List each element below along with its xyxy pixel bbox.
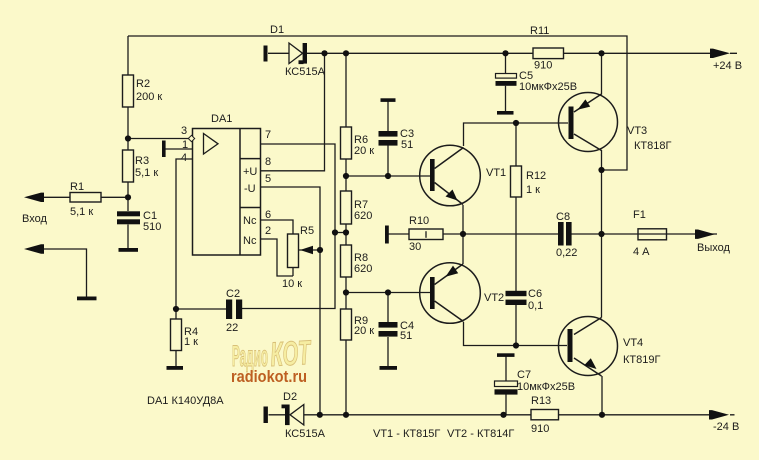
svg-text:3: 3 bbox=[181, 125, 187, 137]
resistor R2 bbox=[123, 75, 134, 107]
resistor R6 bbox=[341, 127, 352, 159]
wire VT4 emitter down to -24V rail bbox=[601, 376, 603, 415]
svg-text:30: 30 bbox=[409, 241, 421, 253]
capacitor C2 bbox=[226, 300, 242, 320]
wire C7 leads bbox=[505, 357, 507, 415]
resistor R1 bbox=[70, 193, 101, 203]
capacitor C7 (polarized) bbox=[495, 353, 518, 394]
wire op-amp pin 8 riser to +24V rail bbox=[261, 53, 325, 171]
wire VT2 base line bbox=[346, 292, 430, 294]
wire VT2 emitter up to output node bbox=[462, 234, 464, 264]
resistor R7 bbox=[341, 191, 352, 224]
op-amp DA1 box bbox=[193, 129, 261, 256]
wire R12 leads through to C6 bbox=[515, 123, 517, 346]
svg-text:R12: R12 bbox=[526, 170, 546, 182]
svg-text:6: 6 bbox=[265, 209, 271, 221]
svg-text:Выход: Выход bbox=[697, 242, 730, 254]
zener D2 bbox=[264, 405, 304, 426]
wire op-amp pin 2 to R5 bottom bbox=[261, 239, 293, 276]
resistor R11 bbox=[533, 48, 564, 59]
svg-text:20 к: 20 к bbox=[354, 145, 374, 157]
svg-text:10 к: 10 к bbox=[282, 278, 302, 290]
wire VT1 emitter down to output node bbox=[462, 205, 464, 234]
-24V terminal arrow bbox=[709, 410, 729, 419]
wire C3 leads bbox=[387, 102, 389, 177]
svg-text:КС515А: КС515А bbox=[285, 428, 326, 440]
svg-text:0,1: 0,1 bbox=[528, 300, 543, 312]
wire -24V rail with D2 bbox=[269, 414, 735, 416]
wire op-amp pin 6 to R5 top bbox=[261, 220, 293, 234]
wire input 2 to ground bbox=[43, 249, 87, 297]
resistor R12 bbox=[511, 166, 522, 197]
svg-text:+24 В: +24 В bbox=[713, 60, 742, 72]
svg-text:D2: D2 bbox=[283, 391, 297, 403]
wire op-amp pin 3 to divider node bbox=[128, 138, 189, 140]
wire R5 wiper to pin5 line bbox=[299, 249, 320, 251]
svg-text:1 к: 1 к bbox=[526, 184, 540, 196]
output terminal arrow bbox=[695, 230, 715, 239]
input terminal arrow 1 bbox=[24, 193, 44, 202]
svg-text:C7: C7 bbox=[517, 369, 531, 381]
svg-text:D1: D1 bbox=[270, 24, 284, 36]
svg-text:F1: F1 bbox=[633, 209, 646, 221]
svg-text:VT4: VT4 bbox=[623, 337, 643, 349]
svg-text:R3: R3 bbox=[135, 155, 149, 167]
wire R1 to divider node bbox=[43, 196, 128, 198]
resistor R3 bbox=[123, 150, 134, 182]
svg-text:20 к: 20 к bbox=[354, 325, 374, 337]
resistor R10 low-ohm tick bbox=[425, 231, 427, 238]
svg-text:1: 1 bbox=[182, 139, 188, 151]
svg-text:+U: +U bbox=[243, 166, 257, 178]
wire R7 leads bbox=[345, 176, 347, 233]
resistor R8 bbox=[341, 245, 352, 277]
resistor R10 bbox=[409, 229, 443, 240]
transistor VT2 (PNP) bbox=[420, 263, 481, 324]
svg-text:R5: R5 bbox=[300, 225, 314, 237]
svg-text:910: 910 bbox=[534, 60, 552, 72]
svg-text:5: 5 bbox=[265, 173, 271, 185]
resistor R13 bbox=[531, 410, 559, 420]
wire op-amp pin 7 output down to C2 right plate bbox=[242, 144, 335, 309]
svg-text:51: 51 bbox=[401, 139, 413, 151]
ground under C1 bbox=[119, 248, 139, 252]
svg-text:620: 620 bbox=[354, 210, 372, 222]
svg-text:7: 7 bbox=[265, 129, 271, 141]
svg-text:R13: R13 bbox=[531, 395, 551, 407]
trimmer R5 wiper arrow bbox=[300, 246, 313, 255]
wire VT3 collector node vertical to output node and VT4 collector bbox=[601, 150, 603, 318]
svg-text:КТ819Г: КТ819Г bbox=[623, 354, 660, 366]
svg-text:DA1 К140УД8А: DA1 К140УД8А bbox=[147, 395, 224, 407]
ground input 2 bbox=[77, 297, 97, 301]
wire VT1 base line bbox=[346, 175, 430, 177]
wire top bootstrap rail from R2 to VT3 collector node bbox=[128, 36, 627, 170]
wire left column R2-R3-C1 bbox=[127, 36, 129, 248]
transistor VT1 (NPN) bbox=[420, 145, 481, 206]
svg-text:8: 8 bbox=[265, 156, 271, 168]
svg-text:VT2 - КТ814Г: VT2 - КТ814Г bbox=[447, 428, 514, 440]
resistor R4 bbox=[171, 319, 182, 351]
svg-text:910: 910 bbox=[531, 423, 549, 435]
svg-text:VT1: VT1 bbox=[486, 167, 506, 179]
svg-text:200 к: 200 к bbox=[136, 91, 162, 103]
wire VT1 collector up and over to VT3 base bbox=[464, 123, 569, 146]
svg-text:VT3: VT3 bbox=[627, 125, 647, 137]
capacitor C4 bbox=[379, 322, 398, 370]
wire VT3 emitter to +24V rail bbox=[601, 53, 603, 94]
svg-text:КТ818Г: КТ818Г bbox=[634, 140, 671, 152]
+24V terminal arrow bbox=[710, 49, 730, 58]
wire output line y=234 bbox=[389, 233, 718, 235]
wire +24V rail with D1 bbox=[268, 52, 737, 54]
wire VT2 collector down and right to VT4 base bbox=[464, 322, 568, 346]
wire op-amp pin 4 down to C2 node bbox=[176, 159, 226, 309]
wire R8 leads bbox=[345, 233, 347, 293]
svg-text:radiokot.ru: radiokot.ru bbox=[231, 367, 307, 386]
svg-text:5,1 к: 5,1 к bbox=[70, 206, 93, 218]
wire C4 leads bbox=[387, 293, 389, 367]
svg-text:VT2: VT2 bbox=[484, 292, 504, 304]
svg-text:C8: C8 bbox=[556, 211, 570, 223]
svg-text:R11: R11 bbox=[530, 25, 549, 37]
svg-text:C2: C2 bbox=[226, 288, 240, 300]
svg-text:4 А: 4 А bbox=[633, 246, 650, 258]
svg-text:0,22: 0,22 bbox=[556, 247, 577, 259]
transistor VT4 (NPN) bbox=[559, 317, 618, 377]
svg-text:4: 4 bbox=[181, 152, 187, 164]
capacitor C6 bbox=[506, 291, 527, 305]
resistor R5 (trimmer) bbox=[288, 234, 299, 268]
svg-text:R10: R10 bbox=[409, 215, 429, 227]
svg-text:1 к: 1 к bbox=[184, 336, 198, 348]
input terminal arrow 2 bbox=[24, 244, 44, 253]
svg-text:51: 51 bbox=[400, 330, 412, 342]
wire R4 leads bbox=[175, 309, 177, 366]
svg-text:Nc: Nc bbox=[243, 215, 257, 227]
wire op-amp pin 1 stub bbox=[165, 148, 192, 150]
capacitor C8 bbox=[558, 222, 572, 246]
svg-text:Nc: Nc bbox=[243, 235, 257, 247]
svg-text:Вход: Вход bbox=[22, 213, 47, 225]
R10 left terminal bar bbox=[385, 226, 389, 244]
capacitor C1 bbox=[117, 211, 140, 224]
fuse F1 bbox=[638, 229, 667, 240]
wire C5 leads bbox=[505, 53, 507, 111]
svg-text:510: 510 bbox=[143, 221, 161, 233]
svg-text:КС515А: КС515А bbox=[285, 66, 326, 78]
svg-text:10мкФх25В: 10мкФх25В bbox=[519, 81, 577, 93]
svg-text:VT1 - КТ815Г: VT1 - КТ815Г bbox=[373, 428, 440, 440]
ground under R4 bbox=[167, 366, 184, 370]
op-amp pin 3 diamond bbox=[188, 135, 194, 141]
capacitor C3 bbox=[379, 98, 398, 145]
svg-text:22: 22 bbox=[226, 322, 238, 334]
op-amp DA1 triangle bbox=[204, 134, 219, 155]
svg-text:5,1 к: 5,1 к bbox=[135, 167, 158, 179]
svg-text:R2: R2 bbox=[136, 78, 150, 90]
wire link pin7 line to R7/R8 node bbox=[335, 232, 346, 234]
svg-text:DA1: DA1 bbox=[211, 113, 232, 125]
svg-text:-24 В: -24 В bbox=[713, 421, 739, 433]
op-amp pin 1 terminal bar bbox=[162, 141, 166, 158]
resistor R9 bbox=[341, 309, 352, 340]
svg-text:620: 620 bbox=[354, 263, 372, 275]
svg-text:-U: -U bbox=[244, 183, 256, 195]
svg-text:10мкФх25В: 10мкФх25В bbox=[517, 381, 575, 393]
wire R9 leads and drop to -24V rail bbox=[345, 293, 347, 416]
zener D1 bbox=[264, 43, 308, 64]
svg-text:C6: C6 bbox=[528, 288, 542, 300]
svg-text:2: 2 bbox=[265, 225, 271, 237]
transistor VT3 (PNP) bbox=[559, 93, 618, 152]
wire op-amp pin 5 down to -24V rail bbox=[261, 187, 320, 415]
capacitor C5 (polarized) bbox=[496, 74, 517, 115]
svg-text:R1: R1 bbox=[70, 181, 84, 193]
wire R6 column bbox=[345, 53, 347, 176]
